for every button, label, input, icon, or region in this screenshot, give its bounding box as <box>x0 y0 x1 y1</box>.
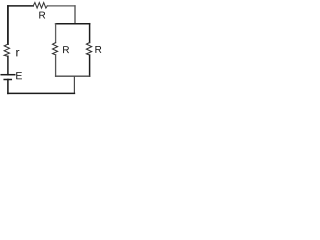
wire top-right: horizontal from R to right descender <box>47 5 75 7</box>
wire left upper lead to internal resistance r <box>7 6 9 44</box>
resistor R (left parallel) <box>53 43 58 55</box>
resistor R (top series) <box>33 3 47 9</box>
wire below battery to bottom return <box>7 80 9 94</box>
battery E negative plate (short) <box>4 79 11 81</box>
label r <box>16 50 19 56</box>
wire between r and battery <box>7 56 9 74</box>
wire center stub from bottom bus down <box>73 76 75 93</box>
wire left parallel branch lower lead <box>55 55 57 76</box>
label R (left parallel) <box>63 46 69 53</box>
battery E positive plate (long) <box>1 74 15 76</box>
resistor r (internal resistance) <box>4 44 9 56</box>
wire right parallel branch lower lead <box>89 55 91 76</box>
node bottom junction / bottom bus of parallel section <box>56 75 90 77</box>
wire right parallel branch upper lead <box>89 24 91 43</box>
resistor R (right parallel) <box>86 43 91 56</box>
wire top-left: left vertical + top horizontal to resistor R <box>8 6 33 44</box>
label R (top) <box>39 12 45 19</box>
wire bottom return <box>8 92 75 94</box>
wire left parallel branch upper lead <box>55 24 57 43</box>
label R (right parallel) <box>95 46 101 53</box>
label E <box>16 72 22 79</box>
node top junction / top bus of parallel section <box>56 23 90 25</box>
wire right descender into parallel section <box>74 6 76 24</box>
